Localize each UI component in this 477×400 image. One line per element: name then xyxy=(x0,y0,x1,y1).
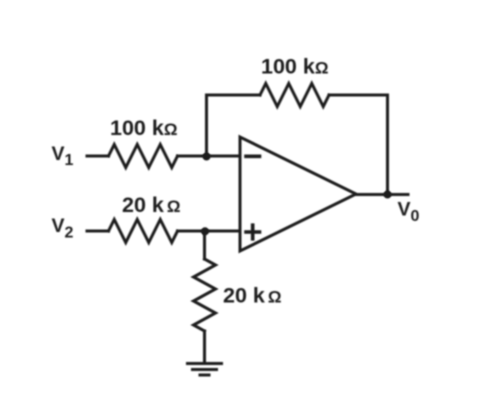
svg-text:100 kΩ: 100 kΩ xyxy=(110,116,177,140)
op-amp plus sign xyxy=(246,225,260,239)
wire R1 to op-amp inverting input xyxy=(178,155,241,158)
wire node B down to R3 xyxy=(203,231,206,259)
svg-text:V2: V2 xyxy=(52,215,74,242)
wire R2 to op-amp non-inverting input xyxy=(178,230,241,233)
svg-text:V0: V0 xyxy=(398,199,420,226)
op-amp U1 triangle xyxy=(240,137,356,251)
resistor R1 100k input zigzag xyxy=(109,145,178,168)
wire feedback left vertical and top-left segment xyxy=(207,95,261,157)
node B junction dot (non-inverting input) xyxy=(201,227,209,235)
wire V2 input lead xyxy=(87,230,109,233)
op-amp minus sign xyxy=(246,155,260,159)
wire R3 to ground xyxy=(203,331,206,362)
svg-text:20 kΩ: 20 kΩ xyxy=(122,193,181,217)
wire op-amp output xyxy=(356,193,408,196)
wire V1 input lead xyxy=(87,155,109,158)
ground symbol xyxy=(188,362,222,365)
svg-text:20 kΩ: 20 kΩ xyxy=(223,284,282,308)
node A junction dot (inverting input) xyxy=(203,153,211,161)
wire feedback top-right segment and right vertical to output xyxy=(329,95,388,195)
resistor Rf 100k feedback zigzag xyxy=(260,84,329,107)
node output junction dot xyxy=(384,191,392,199)
svg-text:100 kΩ: 100 kΩ xyxy=(261,55,328,79)
resistor R2 20k input zigzag xyxy=(109,220,178,243)
resistor R3 20k to ground zigzag xyxy=(194,259,216,331)
svg-text:V1: V1 xyxy=(52,143,74,169)
